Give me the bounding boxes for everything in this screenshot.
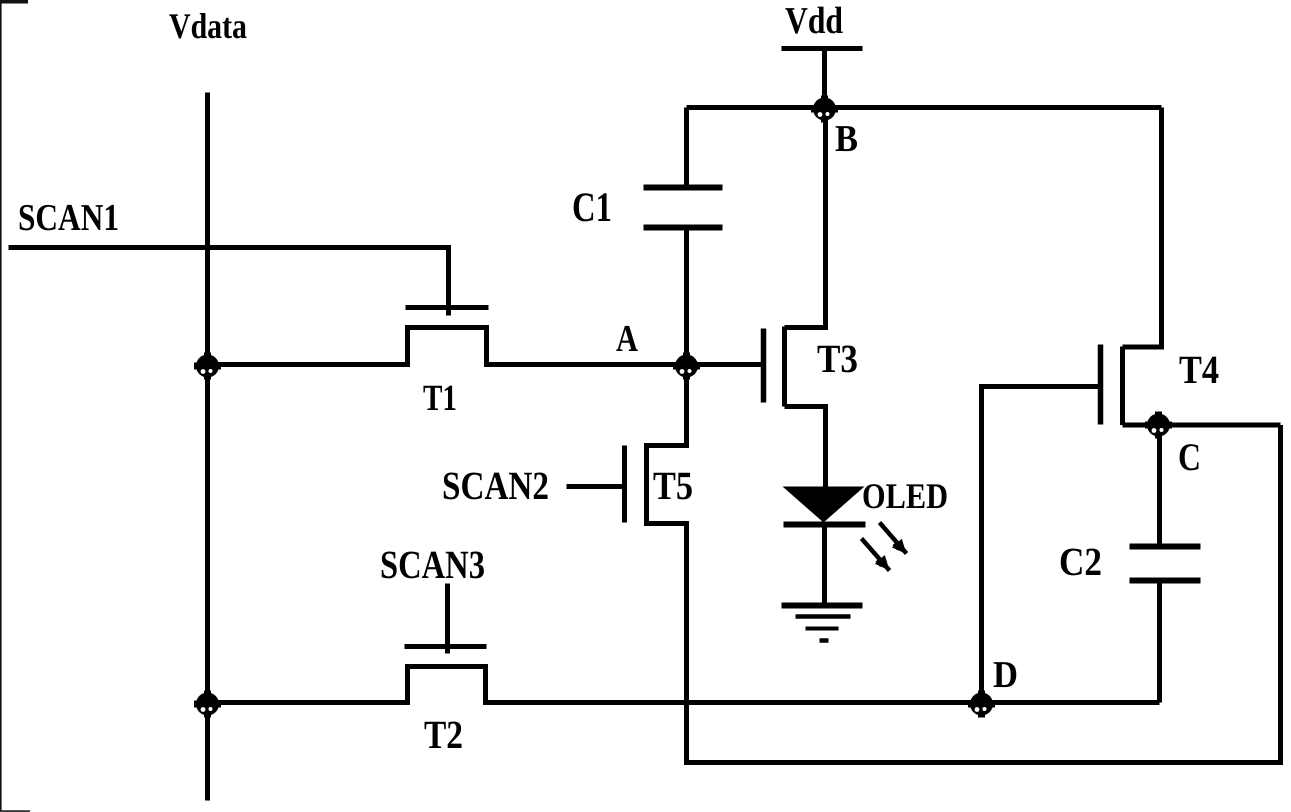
- svg-text:D: D: [993, 654, 1018, 696]
- svg-text:C: C: [1178, 436, 1201, 479]
- svg-text:Vdd: Vdd: [785, 0, 843, 42]
- svg-text:T4: T4: [1179, 347, 1219, 392]
- svg-text:SCAN3: SCAN3: [380, 542, 485, 587]
- svg-text:T5: T5: [653, 463, 693, 508]
- svg-text:OLED: OLED: [862, 476, 948, 516]
- svg-text:T3: T3: [817, 336, 858, 381]
- svg-text:SCAN1: SCAN1: [18, 197, 119, 239]
- svg-text:C1: C1: [572, 185, 612, 231]
- svg-text:B: B: [835, 118, 858, 160]
- svg-text:T2: T2: [424, 712, 463, 757]
- svg-text:SCAN2: SCAN2: [442, 463, 549, 508]
- svg-text:T1: T1: [423, 378, 457, 419]
- svg-text:Vdata: Vdata: [169, 6, 247, 46]
- svg-text:C2: C2: [1059, 539, 1102, 584]
- svg-text:A: A: [616, 318, 638, 360]
